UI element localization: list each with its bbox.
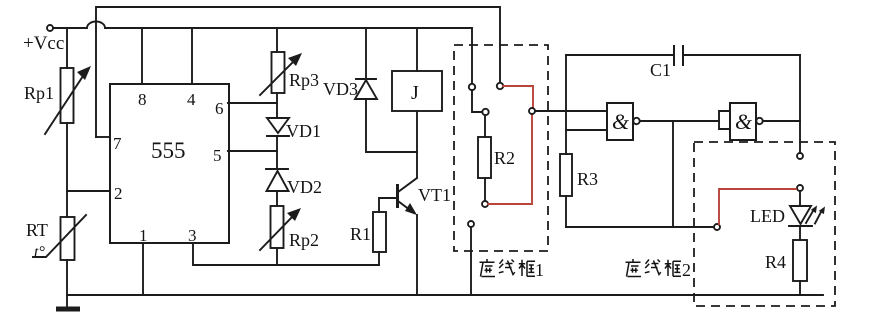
thermistor RT (33, 215, 86, 260)
wire pin6 stub to diode chain (228, 102, 277, 104)
svg-text:R4: R4 (765, 252, 786, 272)
wire +Vcc rail down to contact A (471, 28, 473, 84)
gate U3 NAND2 input tie (719, 111, 730, 129)
wire pin2 tap (67, 190, 110, 192)
node contact H (LED top) (797, 185, 803, 191)
wire ground rail (67, 294, 823, 296)
LED D1 (789, 191, 825, 226)
svg-text:8: 8 (138, 90, 147, 109)
wire NAND1 input 2 (566, 129, 607, 131)
wire contact A arm to D (472, 90, 482, 112)
wire feedback riser to NAND1 output (672, 121, 674, 227)
svg-text:R3: R3 (577, 169, 598, 189)
svg-text:555: 555 (151, 138, 186, 163)
relay coil J (392, 28, 442, 177)
transistor VT1 (398, 178, 418, 295)
wire pin8 to +Vcc rail (141, 28, 143, 84)
wire Rp3 to VD1 (276, 93, 278, 118)
wire pin5 stub to diode chain (228, 150, 277, 152)
wire red E to C (488, 115, 532, 204)
svg-text:VT1: VT1 (418, 185, 451, 205)
wire node C to NAND1 input 1 (535, 110, 607, 112)
wire pin1 to ground (142, 243, 144, 295)
svg-text:7: 7 (113, 134, 122, 153)
potentiometer Rp3 (260, 28, 302, 95)
resistor R2 (478, 115, 491, 201)
svg-text:5: 5 (213, 146, 222, 165)
wire red K to H (719, 189, 796, 224)
wire C1 right riser to NAND2 output and contact (799, 55, 801, 153)
svg-text:&: & (735, 109, 753, 134)
resistor R3 (560, 154, 572, 227)
svg-text:t°: t° (34, 244, 45, 261)
dashed box 2 (694, 142, 835, 306)
label box1: 虚线框1 (480, 259, 545, 280)
potentiometer Rp1 (45, 28, 91, 134)
diode VD2 (266, 169, 289, 206)
svg-text:4: 4 (187, 90, 196, 109)
node contact G (797, 153, 803, 159)
wire F to ground rail (470, 227, 472, 295)
svg-text:VD2: VD2 (287, 177, 322, 197)
op-amp U1: 555 timer box (110, 84, 229, 243)
svg-text:VD3: VD3 (323, 79, 358, 99)
svg-text:+Vcc: +Vcc (23, 33, 64, 54)
ground (56, 307, 80, 312)
resistor R1 (373, 198, 397, 265)
svg-text:RT: RT (26, 220, 48, 240)
wire NAND1 out to NAND2 in (640, 120, 719, 122)
capacitor C1 (566, 45, 800, 66)
node contact B (497, 83, 503, 89)
label box2: 虚线框2 (626, 259, 692, 280)
gate U3 NAND2 (730, 103, 763, 140)
node contact K (714, 224, 720, 230)
node +Vcc terminal (47, 25, 53, 31)
diode VD1 (267, 118, 289, 169)
svg-text:&: & (612, 109, 630, 134)
svg-text:2: 2 (114, 184, 123, 203)
node C (529, 108, 535, 114)
wire red B to C (503, 86, 533, 107)
wire Rp1 bottom to RT top with pin2 tap (66, 123, 68, 217)
svg-text:R1: R1 (350, 224, 371, 244)
svg-text:6: 6 (215, 99, 224, 118)
node contact A (469, 84, 475, 90)
svg-text:1: 1 (535, 260, 544, 280)
wire R3 bottom feedback (566, 226, 714, 228)
svg-text:J: J (411, 82, 419, 104)
resistor R4 (793, 226, 807, 295)
svg-text:C1: C1 (650, 60, 671, 80)
node contact D (482, 109, 488, 115)
diode VD3 (355, 28, 417, 152)
svg-text:2: 2 (682, 260, 691, 280)
node contact F (468, 221, 474, 227)
node contact E (482, 201, 488, 207)
wire NAND2 out to riser (763, 120, 800, 122)
wire pin7 stub (96, 136, 110, 138)
wire +Vcc rail with hop over pin7 riser (53, 22, 472, 28)
svg-text:Rp2: Rp2 (289, 230, 319, 250)
wire input tie riser (565, 55, 567, 154)
potentiometer Rp2 (260, 206, 301, 265)
dashed box 1 (454, 45, 548, 251)
svg-text:Rp3: Rp3 (289, 70, 319, 90)
wire pin3 down and right (193, 243, 379, 265)
svg-text:VD1: VD1 (286, 121, 321, 141)
wire outer top rail (pin7 to contact B) (96, 7, 500, 137)
wire RT bottom to ground (66, 260, 68, 307)
svg-text:R2: R2 (494, 148, 515, 168)
gate U2 NAND1 (607, 103, 640, 140)
svg-text:LED: LED (750, 206, 785, 226)
svg-text:Rp1: Rp1 (24, 83, 54, 103)
wire pin4 to +Vcc rail (191, 28, 193, 84)
